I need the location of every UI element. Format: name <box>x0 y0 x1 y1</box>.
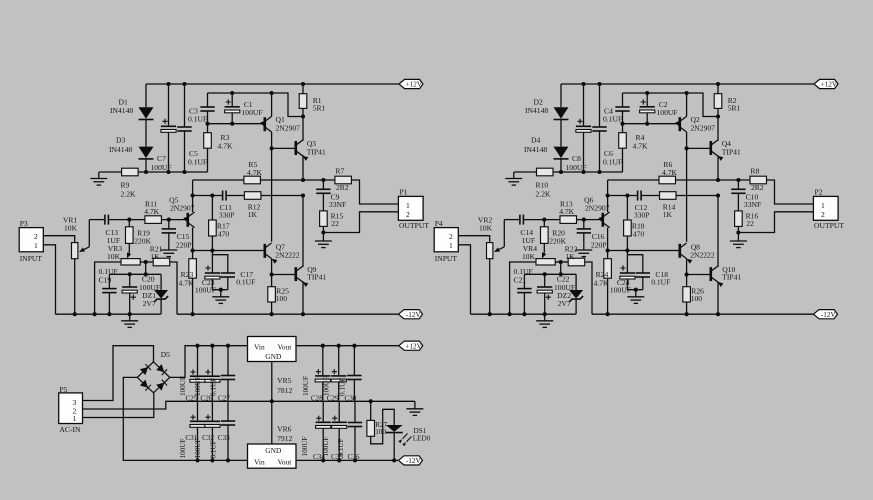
wire input base row (right) <box>504 219 520 221</box>
capacitor C13 1UF <box>104 215 106 225</box>
svg-text:GND: GND <box>265 446 282 455</box>
wire bypass row (left) <box>145 262 147 274</box>
svg-text:1: 1 <box>73 414 77 423</box>
wire P4 pin2 to VR2 <box>458 236 489 243</box>
wire Q2 collector to Q4 base <box>687 147 711 149</box>
svg-text:INPUT: INPUT <box>20 254 43 263</box>
wire input ground rail (right) <box>471 313 576 315</box>
connector P2 output <box>813 196 838 220</box>
svg-text:330P: 330P <box>219 211 235 220</box>
resistor R25 100 <box>271 275 273 287</box>
wire Q8 emitter to Q10 base <box>687 274 711 276</box>
wire P3 pin2 to VR1 <box>43 236 74 243</box>
svg-text:2: 2 <box>821 210 825 219</box>
potentiometer VR2 10K <box>487 243 493 259</box>
resistor R2 5R1 <box>717 84 719 94</box>
wire feedback row (left) <box>193 195 223 197</box>
svg-text:220P: 220P <box>176 240 192 249</box>
bridge diode top-right <box>156 364 164 372</box>
diode D1 <box>139 107 154 119</box>
svg-text:-12V: -12V <box>821 311 837 319</box>
resistor R9 2.2K <box>122 168 139 176</box>
wire R21 to -12V rail <box>170 262 177 314</box>
wire bypass row (right) <box>560 262 562 274</box>
capacitor C28 100UF <box>322 346 324 376</box>
svg-text:10K: 10K <box>107 252 121 261</box>
svg-text:C33: C33 <box>218 434 230 442</box>
capacitor C26 100UF <box>211 346 213 377</box>
capacitor C23 100UF <box>211 251 213 255</box>
svg-text:2N2907: 2N2907 <box>585 203 610 212</box>
svg-text:D4: D4 <box>531 136 540 145</box>
svg-text:Vin: Vin <box>254 458 265 467</box>
svg-text:7912: 7912 <box>277 434 292 443</box>
bridge diode bottom-left <box>140 380 148 388</box>
svg-text:100: 100 <box>691 294 703 303</box>
svg-text:4.7K: 4.7K <box>633 142 648 151</box>
svg-text:220P: 220P <box>591 240 607 249</box>
connector P3 input <box>19 228 43 252</box>
svg-text:2R2: 2R2 <box>336 183 349 192</box>
capacitor C19 0.1UF <box>108 274 110 288</box>
capacitor C32 100UF <box>211 401 213 421</box>
svg-text:INPUT: INPUT <box>435 254 458 263</box>
wire decoupled sub-rail (left) <box>208 93 304 117</box>
svg-text:R7: R7 <box>335 166 344 175</box>
wire P2 pin2 to ground <box>738 212 813 233</box>
svg-text:C21: C21 <box>514 276 527 285</box>
svg-text:D1: D1 <box>119 98 128 107</box>
wire input base row (left) <box>89 219 105 221</box>
capacitor C25 100UF <box>197 346 199 377</box>
potentiometer VR1 10K <box>72 243 78 259</box>
resistor R23 4.7K <box>192 251 194 259</box>
resistor R13 4.7K <box>560 216 577 224</box>
capacitor C4 0.1UF <box>622 93 624 107</box>
potentiometer VR4 10K <box>536 259 555 265</box>
svg-text:4.7K: 4.7K <box>179 279 194 288</box>
wire +12V top rail (right) <box>561 83 814 85</box>
bridge rectifier D5 <box>137 362 170 393</box>
svg-text:2N2222: 2N2222 <box>275 250 300 259</box>
resistor R5 4.7K feedback <box>193 179 244 181</box>
ground at output network (right) <box>736 230 740 234</box>
svg-text:7812: 7812 <box>277 386 292 395</box>
svg-text:33NF: 33NF <box>744 200 761 209</box>
ground for C15 <box>160 250 177 257</box>
svg-text:OUTPUT: OUTPUT <box>814 221 844 230</box>
svg-text:2.2K: 2.2K <box>536 190 551 199</box>
svg-text:C8: C8 <box>572 154 581 163</box>
ground rail right end ground symbol <box>414 401 416 409</box>
svg-text:1K: 1K <box>248 210 258 219</box>
capacitor C36 0.1UF <box>354 401 356 422</box>
svg-text:0.1UF: 0.1UF <box>339 378 347 396</box>
wire P5 pin1 to bridge bottom <box>83 393 154 418</box>
ground at output network (left) <box>321 230 325 234</box>
svg-text:D3: D3 <box>116 136 125 145</box>
connector P1 output <box>398 196 423 220</box>
svg-text:2.2K: 2.2K <box>121 190 136 199</box>
svg-text:C7: C7 <box>157 154 166 163</box>
svg-text:1: 1 <box>34 241 38 250</box>
capacitor C5 0.1UF <box>184 84 186 127</box>
capacitor C14 1UF <box>519 215 521 225</box>
svg-text:4.7K: 4.7K <box>662 168 677 177</box>
transistor Q5 2N2907 PNP input <box>187 213 190 227</box>
transistor Q8 2N2222 NPN <box>678 244 681 258</box>
wire -12V output rail (psu) <box>296 459 399 461</box>
power flag -12V (psu) <box>399 456 423 465</box>
capacitor C27 0.1UF <box>227 346 229 376</box>
zener diode DZ1 2V7 <box>160 274 162 290</box>
svg-text:IN4148: IN4148 <box>110 106 133 115</box>
resistor R16 22 <box>735 211 743 227</box>
resistor R10 2.2K <box>537 168 554 176</box>
svg-text:Vout: Vout <box>278 343 293 352</box>
svg-text:+12V: +12V <box>406 81 423 89</box>
capacitor C3 0.1UF <box>207 93 209 107</box>
wire VR1 wiper <box>88 220 90 247</box>
capacitor C30 0.1UF <box>353 346 355 376</box>
svg-text:P2: P2 <box>815 188 823 197</box>
svg-text:1K: 1K <box>150 252 160 261</box>
transistor Q4 TIP41 NPN <box>709 141 712 155</box>
power flag +12V (left) <box>399 79 423 88</box>
svg-text:4.7K: 4.7K <box>144 207 159 216</box>
ground for C24 <box>634 288 638 292</box>
wire D3 cathode to bias row <box>145 159 147 172</box>
svg-text:IN4148: IN4148 <box>109 145 132 154</box>
connector P5 AC input <box>59 393 83 424</box>
svg-text:0.1UF: 0.1UF <box>236 278 255 287</box>
wire R20 to VR4 wiper <box>543 243 545 252</box>
svg-text:100UF: 100UF <box>151 163 172 172</box>
bridge diode bottom-right <box>156 383 164 391</box>
power flag -12V (right) <box>814 310 838 319</box>
wire D1 cathode to D3 anode <box>145 120 147 147</box>
svg-text:AC-IN: AC-IN <box>59 425 81 434</box>
svg-text:P1: P1 <box>400 188 408 197</box>
capacitor C10 33NF <box>737 180 739 189</box>
resistor R20 220K <box>543 220 545 227</box>
capacitor C21 0.1UF <box>523 274 525 288</box>
wire R19 to VR3 wiper <box>128 243 130 252</box>
svg-text:2: 2 <box>34 232 38 241</box>
svg-text:P5: P5 <box>59 385 67 394</box>
capacitor C9 33NF <box>322 180 324 189</box>
capacitor C2 100UF <box>646 93 648 107</box>
svg-text:TIP41: TIP41 <box>722 148 741 157</box>
svg-text:Vin: Vin <box>254 343 265 352</box>
capacitor C16 220P <box>583 220 585 229</box>
svg-text:10K: 10K <box>64 223 78 232</box>
capacitor C11 330P <box>222 191 224 201</box>
svg-text:2N2907: 2N2907 <box>276 124 301 133</box>
ground symbol on input rail (right) <box>544 314 546 321</box>
svg-text:0.1UF: 0.1UF <box>188 114 207 123</box>
svg-text:0.1UF: 0.1UF <box>651 278 670 287</box>
svg-text:22: 22 <box>331 219 339 228</box>
capacitor C15 220P <box>168 220 170 229</box>
resistor R14 1K <box>660 192 677 200</box>
svg-text:4.7K: 4.7K <box>559 207 574 216</box>
svg-text:100UF: 100UF <box>301 437 309 457</box>
wire VR2 bottom to ground rail <box>489 259 491 315</box>
diode D4 <box>554 147 569 159</box>
capacitor C8 100UF <box>583 84 585 126</box>
capacitor C34 100UF <box>322 401 324 422</box>
capacitor C1 100UF <box>231 93 233 107</box>
resistor R1 5R1 <box>302 84 304 94</box>
wire input ground rail (left) <box>56 313 161 315</box>
svg-text:Vout: Vout <box>278 458 293 467</box>
wire decoupled sub-rail (right) <box>623 93 719 117</box>
svg-text:100UF: 100UF <box>610 286 631 295</box>
resistor R22 1K <box>568 258 585 266</box>
svg-text:D2: D2 <box>534 98 543 107</box>
svg-text:OUTPUT: OUTPUT <box>399 221 429 230</box>
svg-text:100UF: 100UF <box>179 439 187 459</box>
diode D2 <box>554 107 569 119</box>
svg-text:0.1UF: 0.1UF <box>210 440 218 458</box>
ground symbol on input rail (left) <box>129 314 131 321</box>
resistor R24 4.7K <box>607 251 609 259</box>
node bias row y=172 (right) <box>514 171 536 173</box>
capacitor C20 100UF <box>129 274 131 287</box>
resistor R26 100 <box>686 275 688 287</box>
wire feedback row (right) <box>608 195 638 197</box>
wire bridge minus to raw -V rail <box>123 377 247 460</box>
LED DS1 LED0 <box>386 425 403 432</box>
svg-text:R9: R9 <box>121 181 130 190</box>
wire bridge plus to raw +V rail <box>170 346 248 378</box>
svg-text:33NF: 33NF <box>329 200 346 209</box>
svg-text:0.1UF: 0.1UF <box>210 378 218 396</box>
svg-text:100UF: 100UF <box>322 437 330 457</box>
svg-text:0.1UF: 0.1UF <box>337 438 345 456</box>
svg-text:100UF: 100UF <box>179 376 187 396</box>
svg-text:TIP41: TIP41 <box>307 273 326 282</box>
resistor R19 220K <box>128 220 130 227</box>
svg-text:1K: 1K <box>663 210 673 219</box>
wire R22 to -12V rail <box>585 262 592 314</box>
transistor Q6 2N2907 PNP input <box>601 213 604 227</box>
wire -12V rail (right) <box>592 313 814 315</box>
resistor R27 100 <box>369 399 373 403</box>
svg-text:4.7K: 4.7K <box>247 168 262 177</box>
svg-text:10K: 10K <box>522 252 536 261</box>
capacitor C22 100UF <box>544 274 546 287</box>
wire Q7 emitter to Q9 base <box>272 274 296 276</box>
resistor R6 4.7K feedback <box>608 179 659 181</box>
svg-text:4.7K: 4.7K <box>218 142 233 151</box>
svg-text:1K: 1K <box>565 252 575 261</box>
capacitor C24 100UF <box>626 251 628 255</box>
svg-text:D5: D5 <box>161 350 170 359</box>
svg-text:10K: 10K <box>479 223 493 232</box>
capacitor C7 100UF <box>168 84 170 126</box>
zener diode DZ2 2V7 <box>575 274 577 290</box>
wire rail to D2 anode <box>560 84 562 107</box>
svg-text:0.1UF: 0.1UF <box>603 114 622 123</box>
svg-text:5R1: 5R1 <box>728 104 741 113</box>
wire P3 pin1 to ground rail <box>43 245 55 314</box>
transistor Q3 TIP41 NPN <box>294 141 297 155</box>
capacitor C35 100UF <box>338 401 340 422</box>
resistor R11 4.7K <box>145 216 162 224</box>
svg-text:22: 22 <box>746 219 754 228</box>
resistor R8 2R2 <box>750 176 767 184</box>
svg-text:C19: C19 <box>99 276 112 285</box>
svg-text:R10: R10 <box>536 181 549 190</box>
wire driver node vertical (right) <box>686 148 688 241</box>
svg-text:470: 470 <box>218 229 230 238</box>
regulator VR5 7812 <box>248 337 297 362</box>
svg-text:GND: GND <box>265 352 282 361</box>
svg-text:P3: P3 <box>20 219 28 228</box>
svg-text:-12V: -12V <box>406 311 422 319</box>
connector P4 input <box>434 228 458 252</box>
svg-text:100UF: 100UF <box>195 286 216 295</box>
svg-text:100UF: 100UF <box>657 108 678 117</box>
svg-text:VR6: VR6 <box>277 425 292 434</box>
wire -12V rail (left) <box>177 313 399 315</box>
svg-text:C28: C28 <box>311 395 323 403</box>
wire VR3 left to ground rail <box>95 262 121 314</box>
wire P4 pin1 to ground rail <box>458 245 470 314</box>
node bias row y=172 (left) <box>99 171 121 173</box>
svg-text:5R1: 5R1 <box>313 104 326 113</box>
power flag +12V (right) <box>814 79 838 88</box>
diode D3 <box>139 147 154 159</box>
svg-text:330P: 330P <box>634 211 650 220</box>
resistor R7 2R2 <box>335 176 352 184</box>
svg-text:100UF: 100UF <box>566 163 587 172</box>
wire +12V top rail (left) <box>146 83 399 85</box>
resistor R4 4.7K <box>622 124 624 133</box>
wire +12V output rail (psu) <box>296 345 399 347</box>
transistor Q1 2N2907 PNP <box>263 117 266 131</box>
svg-text:100UF: 100UF <box>242 108 263 117</box>
svg-text:1: 1 <box>449 241 453 250</box>
resistor R18 470 <box>626 196 628 221</box>
wire P5 pin2 to ground rail <box>83 401 415 409</box>
transistor Q9 TIP41 NPN <box>294 267 297 281</box>
svg-text:100UF: 100UF <box>194 376 202 396</box>
ground for R9 <box>90 179 107 186</box>
wire P5 pin3 to bridge top <box>83 346 154 401</box>
wire Q6 collector row to Q8 base <box>608 250 680 252</box>
resistor R12 1K <box>244 192 261 200</box>
svg-text:VR5: VR5 <box>277 376 292 385</box>
wire VR2 wiper <box>503 220 505 247</box>
wire driver node vertical (left) <box>271 148 273 241</box>
svg-text:2: 2 <box>449 232 453 241</box>
svg-text:1: 1 <box>821 201 825 210</box>
svg-text:2: 2 <box>406 210 410 219</box>
wire VR5 GND pin <box>271 361 273 401</box>
wire VR3 to R21 <box>140 261 153 263</box>
capacitor C18 0.1UF <box>627 255 642 273</box>
capacitor C29 100UF <box>338 346 340 376</box>
resistor R3 4.7K <box>207 124 209 133</box>
potentiometer VR3 10K <box>121 259 140 265</box>
svg-text:0.1UF: 0.1UF <box>603 158 622 167</box>
wire base row to Q1 <box>208 123 265 125</box>
capacitor C33 0.1UF <box>227 401 229 421</box>
capacitor C12 330P <box>637 191 639 201</box>
svg-text:IN4148: IN4148 <box>525 106 548 115</box>
ground for R10 <box>505 179 522 186</box>
wire VR4 to R22 <box>555 261 568 263</box>
svg-text:+12V: +12V <box>405 342 422 350</box>
resistor R15 22 <box>320 211 328 227</box>
svg-text:LED0: LED0 <box>413 435 431 443</box>
resistor R17 470 <box>211 196 213 221</box>
svg-text:2N2907: 2N2907 <box>170 203 195 212</box>
wire P1 pin2 to ground <box>323 212 398 233</box>
svg-text:100: 100 <box>375 428 386 436</box>
wire VR4 left to ground rail <box>510 262 536 314</box>
wire Q1 collector to Q3 base <box>272 147 296 149</box>
svg-text:470: 470 <box>633 229 645 238</box>
wire D2 cathode to D4 anode <box>560 120 562 147</box>
transistor Q10 TIP41 NPN <box>709 267 712 281</box>
svg-text:IN4148: IN4148 <box>524 145 547 154</box>
svg-text:100UF: 100UF <box>194 439 202 459</box>
resistor R21 1K <box>153 258 170 266</box>
wire VR1 bottom to ground rail <box>74 259 76 315</box>
svg-text:R8: R8 <box>750 166 759 175</box>
svg-text:2V7: 2V7 <box>143 299 156 308</box>
capacitor C6 0.1UF <box>599 84 601 127</box>
svg-text:2N2907: 2N2907 <box>691 124 716 133</box>
ground for C23 <box>219 288 223 292</box>
capacitor C31 100UF <box>197 401 199 421</box>
power flag +12V (psu) <box>399 341 423 350</box>
svg-text:4.7K: 4.7K <box>594 279 609 288</box>
svg-text:P4: P4 <box>435 219 443 228</box>
wire rail to D1 anode <box>145 84 147 107</box>
capacitor C17 0.1UF <box>212 255 227 273</box>
bridge diode top-left <box>140 367 148 375</box>
svg-text:TIP41: TIP41 <box>307 148 326 157</box>
transistor Q2 2N2907 PNP <box>678 117 681 131</box>
wire VR6 GND pin <box>271 401 273 444</box>
wire D4 cathode to bias row <box>560 159 562 172</box>
node output row (right) <box>718 179 751 181</box>
node output row (left) <box>303 179 336 181</box>
svg-text:2N2222: 2N2222 <box>690 250 715 259</box>
power flag -12V (left) <box>399 310 423 319</box>
svg-text:0.1UF: 0.1UF <box>188 158 207 167</box>
svg-text:2R2: 2R2 <box>751 183 764 192</box>
ground for C16 <box>575 250 592 257</box>
svg-text:100: 100 <box>276 294 288 303</box>
regulator VR6 7912 <box>248 444 297 468</box>
svg-text:TIP41: TIP41 <box>722 273 741 282</box>
svg-text:100UF: 100UF <box>323 376 331 396</box>
svg-text:100UF: 100UF <box>302 376 310 396</box>
transistor Q7 2N2222 NPN <box>263 244 266 258</box>
svg-text:C29: C29 <box>327 395 339 403</box>
svg-text:2V7: 2V7 <box>558 299 571 308</box>
wire Q5 collector row to Q7 base <box>193 250 265 252</box>
svg-text:-12V: -12V <box>406 457 422 465</box>
wire base row to Q2 <box>623 123 680 125</box>
svg-text:+12V: +12V <box>821 81 838 89</box>
